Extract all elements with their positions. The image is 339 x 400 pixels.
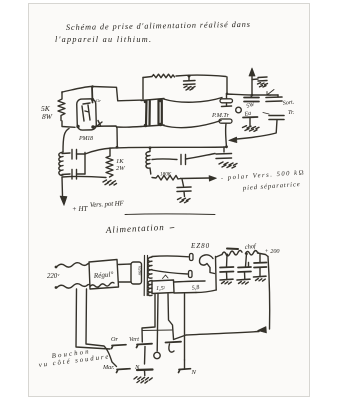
wire down to circle O xyxy=(156,294,159,351)
wire bus to R3 xyxy=(109,148,111,156)
junction dot HT rail xyxy=(188,75,191,78)
resistor R 5K 8W body xyxy=(58,92,65,121)
wire C3 down to bus xyxy=(225,124,228,148)
resistor R2 on HT rail xyxy=(152,74,175,78)
tube V1 cathode dot left xyxy=(76,125,79,128)
capacitor C2 pill plate xyxy=(220,99,233,103)
tube V1 cathode dot right xyxy=(91,125,94,128)
Mar lug plate xyxy=(117,369,131,373)
arrowhead on return xyxy=(258,327,267,334)
ground under R3 xyxy=(103,180,117,185)
wire HT top to rectifier anode 1 xyxy=(152,255,189,258)
T1 terminal dots xyxy=(144,99,163,128)
capacitor C11 left lead from coil xyxy=(152,158,177,161)
J cap plate xyxy=(166,341,182,344)
junction dot C3 bus xyxy=(225,145,228,148)
wire regul drop 1 xyxy=(76,289,110,349)
capacitor C6 plates (Sort) xyxy=(266,97,282,102)
wire box to primary bottom xyxy=(119,281,132,283)
bottom node wire to R3 bottom xyxy=(62,176,106,177)
wire node down to decoupling network xyxy=(63,129,69,153)
return wire to J terminal xyxy=(174,332,260,340)
right rail down xyxy=(268,257,270,330)
ground under C5 xyxy=(243,126,260,132)
capacitor C5 plates xyxy=(244,98,259,102)
svg-text:Vert: Vert xyxy=(129,336,139,343)
transformer primary winding box xyxy=(131,262,142,284)
wire cathode node to T1 bottom xyxy=(117,126,141,129)
fuse squiggle top xyxy=(57,263,89,267)
rectifier V2 cathode rail xyxy=(215,257,218,291)
svg-text:2W: 2W xyxy=(116,165,125,172)
wire V1 cathode to bus xyxy=(95,126,117,147)
svg-text:+ HT: + HT xyxy=(72,205,89,213)
squiggle under box xyxy=(90,282,114,287)
ground hatch under CA xyxy=(222,282,232,285)
capacitor C8 right lead xyxy=(77,153,86,155)
svg-text:P.M.Tr: P.M.Tr xyxy=(211,112,230,119)
capacitor C12 stem from bus xyxy=(223,147,225,152)
rectifier V2 anode 2 plate xyxy=(189,271,193,278)
caret above box xyxy=(163,275,169,279)
transformer T1 top bar xyxy=(141,99,164,101)
B+ wire cathode to choke xyxy=(216,255,222,258)
CB extra tick xyxy=(248,263,250,268)
junction dot choke caps B xyxy=(245,253,248,256)
CC stem to ground xyxy=(259,268,261,277)
arrowhead at column junction xyxy=(229,137,237,143)
ground under C10 xyxy=(178,198,191,203)
svg-text:N: N xyxy=(191,369,197,376)
filter cap CB stem xyxy=(246,254,247,267)
CA stem to ground xyxy=(226,272,228,279)
separator line xyxy=(125,213,215,216)
capacitor C8 plates xyxy=(72,150,77,160)
capacitor C10 plates xyxy=(177,187,191,192)
CB stem to ground xyxy=(244,272,246,279)
wire box to primary top xyxy=(119,263,132,266)
terminal dot N xyxy=(55,286,58,289)
arrowhead polar xyxy=(209,176,217,182)
tube V1 top junction dot xyxy=(91,98,94,101)
junction dot bus left xyxy=(116,146,119,149)
choke L3 loops group 1 xyxy=(222,250,242,255)
ground bar under CA xyxy=(220,278,233,281)
transformer core xyxy=(144,256,147,296)
filter cap CC stem xyxy=(259,255,261,263)
wire EZ80 area down to N right xyxy=(184,294,186,360)
wire resistor bottom to node under tube xyxy=(62,121,75,127)
wire V1 grid step to T1 xyxy=(93,87,142,101)
capacitor C11 plates xyxy=(181,155,186,165)
tube V1 cathode tick xyxy=(97,121,102,127)
svg-text:+ 200: + 200 xyxy=(265,248,281,255)
cross wire at bottom cluster xyxy=(142,329,172,332)
capacitor C9 left lead xyxy=(62,173,70,176)
C10 stem to ground xyxy=(183,192,186,197)
C2 stub xyxy=(226,94,228,106)
svg-text:EZ80: EZ80 xyxy=(190,242,210,250)
filter cap CA plates xyxy=(220,267,234,272)
wire down to J cap xyxy=(168,294,174,339)
ground bar under CC xyxy=(254,275,267,278)
tube V1 anode lead xyxy=(91,87,94,103)
rectifier V2 cathode hook xyxy=(199,255,214,274)
filter cap CB plates xyxy=(238,267,251,272)
filament wire top xyxy=(174,281,205,282)
stub to capacitor C4 xyxy=(252,78,258,81)
wire T1 secondary bottom to C3 node xyxy=(164,121,222,128)
filament wire bottom xyxy=(174,292,196,295)
decoupling coil L1 xyxy=(59,152,63,175)
node arrow up (B+) xyxy=(251,75,253,95)
6.3V winding loops xyxy=(148,281,152,296)
C5 stem to ground xyxy=(249,118,251,127)
svg-text:l'appareil au lithium.: l'appareil au lithium. xyxy=(55,35,151,44)
capacitor C9 plates xyxy=(72,170,77,180)
wire HT rail down to C2 xyxy=(226,77,228,94)
tube V1 internal electrodes xyxy=(82,103,90,121)
terminal dot L xyxy=(55,266,58,269)
wire C2 node across to arrow node xyxy=(227,94,252,95)
filter cap CC plates xyxy=(254,263,267,268)
ground hatch under CC xyxy=(256,279,266,282)
capacitor C4 plates xyxy=(258,77,267,81)
HT secondary winding loops xyxy=(148,257,152,278)
wire Vert to ground N xyxy=(144,347,147,365)
capacitor C9 right lead xyxy=(77,173,86,175)
dot after label xyxy=(170,227,174,230)
svg-text:PM18: PM18 xyxy=(78,136,93,142)
regulator box xyxy=(89,260,119,290)
rectifier V2 bottom wire xyxy=(196,290,216,293)
capacitor C11 right lead xyxy=(186,154,216,160)
wire C7 down and left to bus xyxy=(237,120,277,139)
ground under C1 xyxy=(184,86,195,90)
wire HT bottom to rectifier anode 2 xyxy=(152,270,188,274)
choke L3 loops group 2 xyxy=(246,251,259,255)
ground hatch under CB xyxy=(239,282,249,285)
Vert lug plate xyxy=(137,344,153,348)
6.3V winding box xyxy=(152,280,174,294)
circle node O xyxy=(236,107,242,113)
wire down to C6 xyxy=(277,95,279,97)
capacitor C8 top lead xyxy=(62,152,70,155)
capacitor C10 stem xyxy=(182,179,184,186)
chassis ground hatch xyxy=(134,377,152,383)
thick dash above choke xyxy=(227,248,238,251)
capacitor C7 plates xyxy=(269,116,284,120)
transformer T1 left winding xyxy=(146,101,150,125)
wire choke to right rail xyxy=(258,253,269,257)
svg-text:Gr: Gr xyxy=(96,98,101,103)
svg-text:0280: 0280 xyxy=(138,266,143,276)
wire regul drop 2 xyxy=(86,289,117,367)
N right lug plate xyxy=(179,369,191,373)
junction dot bus L2 xyxy=(149,146,152,149)
ground under C12 xyxy=(219,162,237,168)
capacitor C2 lower plate xyxy=(222,105,232,108)
rectifier V2 anode 1 plate xyxy=(190,254,194,261)
main bus wire xyxy=(85,147,226,154)
N right stem xyxy=(184,360,186,369)
arrowhead +HT xyxy=(60,196,67,206)
junction dot grid node xyxy=(91,85,94,88)
Or lug plate xyxy=(112,345,127,349)
junction dot rail C2 xyxy=(226,93,229,96)
ground bar under CB xyxy=(237,278,250,281)
chassis ground stem xyxy=(144,371,146,376)
wire T1 top to HT rail xyxy=(142,78,144,100)
wire arrow node to Sort column xyxy=(252,94,278,96)
junction dot choke caps A xyxy=(226,254,229,257)
wire resistor top to tube V1 anode xyxy=(62,87,91,94)
resistor R3 1K body xyxy=(106,156,113,177)
transformer T1 right winding xyxy=(159,100,162,124)
svg-text:chof: chof xyxy=(244,243,257,251)
capacitor C1 plates xyxy=(184,81,196,85)
svg-text:8W: 8W xyxy=(42,112,53,121)
HT rail left segment xyxy=(143,77,152,78)
fuse squiggle bottom xyxy=(57,284,89,288)
svg-text:Tr.: Tr. xyxy=(288,110,294,116)
wire right side of C8/C9 xyxy=(84,153,86,175)
coil L2 under bus xyxy=(146,148,151,175)
svg-text:Or: Or xyxy=(111,336,118,343)
svg-text:220ᵛ: 220ᵛ xyxy=(47,273,60,280)
wire into C5 xyxy=(250,95,253,98)
transformer T1 bottom bar xyxy=(141,125,164,127)
hook into C7 xyxy=(263,113,269,115)
ground under C4 xyxy=(258,83,268,87)
resistor R4 180K body xyxy=(152,176,181,181)
J hook xyxy=(169,344,174,352)
svg-text:1K: 1K xyxy=(116,158,124,165)
wire 6.3 box down to Vert xyxy=(142,294,155,342)
svg-text:Mar.: Mar. xyxy=(102,364,115,371)
svg-text:1,5ʲ: 1,5ʲ xyxy=(156,285,166,292)
arrow tick on C6 xyxy=(267,90,274,96)
circle terminal O xyxy=(154,352,160,358)
chassis ground bar xyxy=(137,368,153,371)
wire R4 to arrow xyxy=(181,177,210,180)
capacitor C1 to ground on HT rail stem xyxy=(188,76,190,81)
junction dot arrow node xyxy=(251,94,254,97)
tube V1 envelope xyxy=(77,99,97,130)
HT rail right segment xyxy=(176,75,226,76)
filter cap CA stem xyxy=(226,255,229,268)
capacitor C3 pill plate xyxy=(219,119,232,123)
wire T1 secondary top to C2 column xyxy=(164,98,223,103)
arrowhead up xyxy=(249,68,255,76)
capacitor C5 lower plate xyxy=(243,116,258,119)
capacitor C12 plates xyxy=(216,154,232,159)
wire down to +HT arrow xyxy=(61,177,64,196)
